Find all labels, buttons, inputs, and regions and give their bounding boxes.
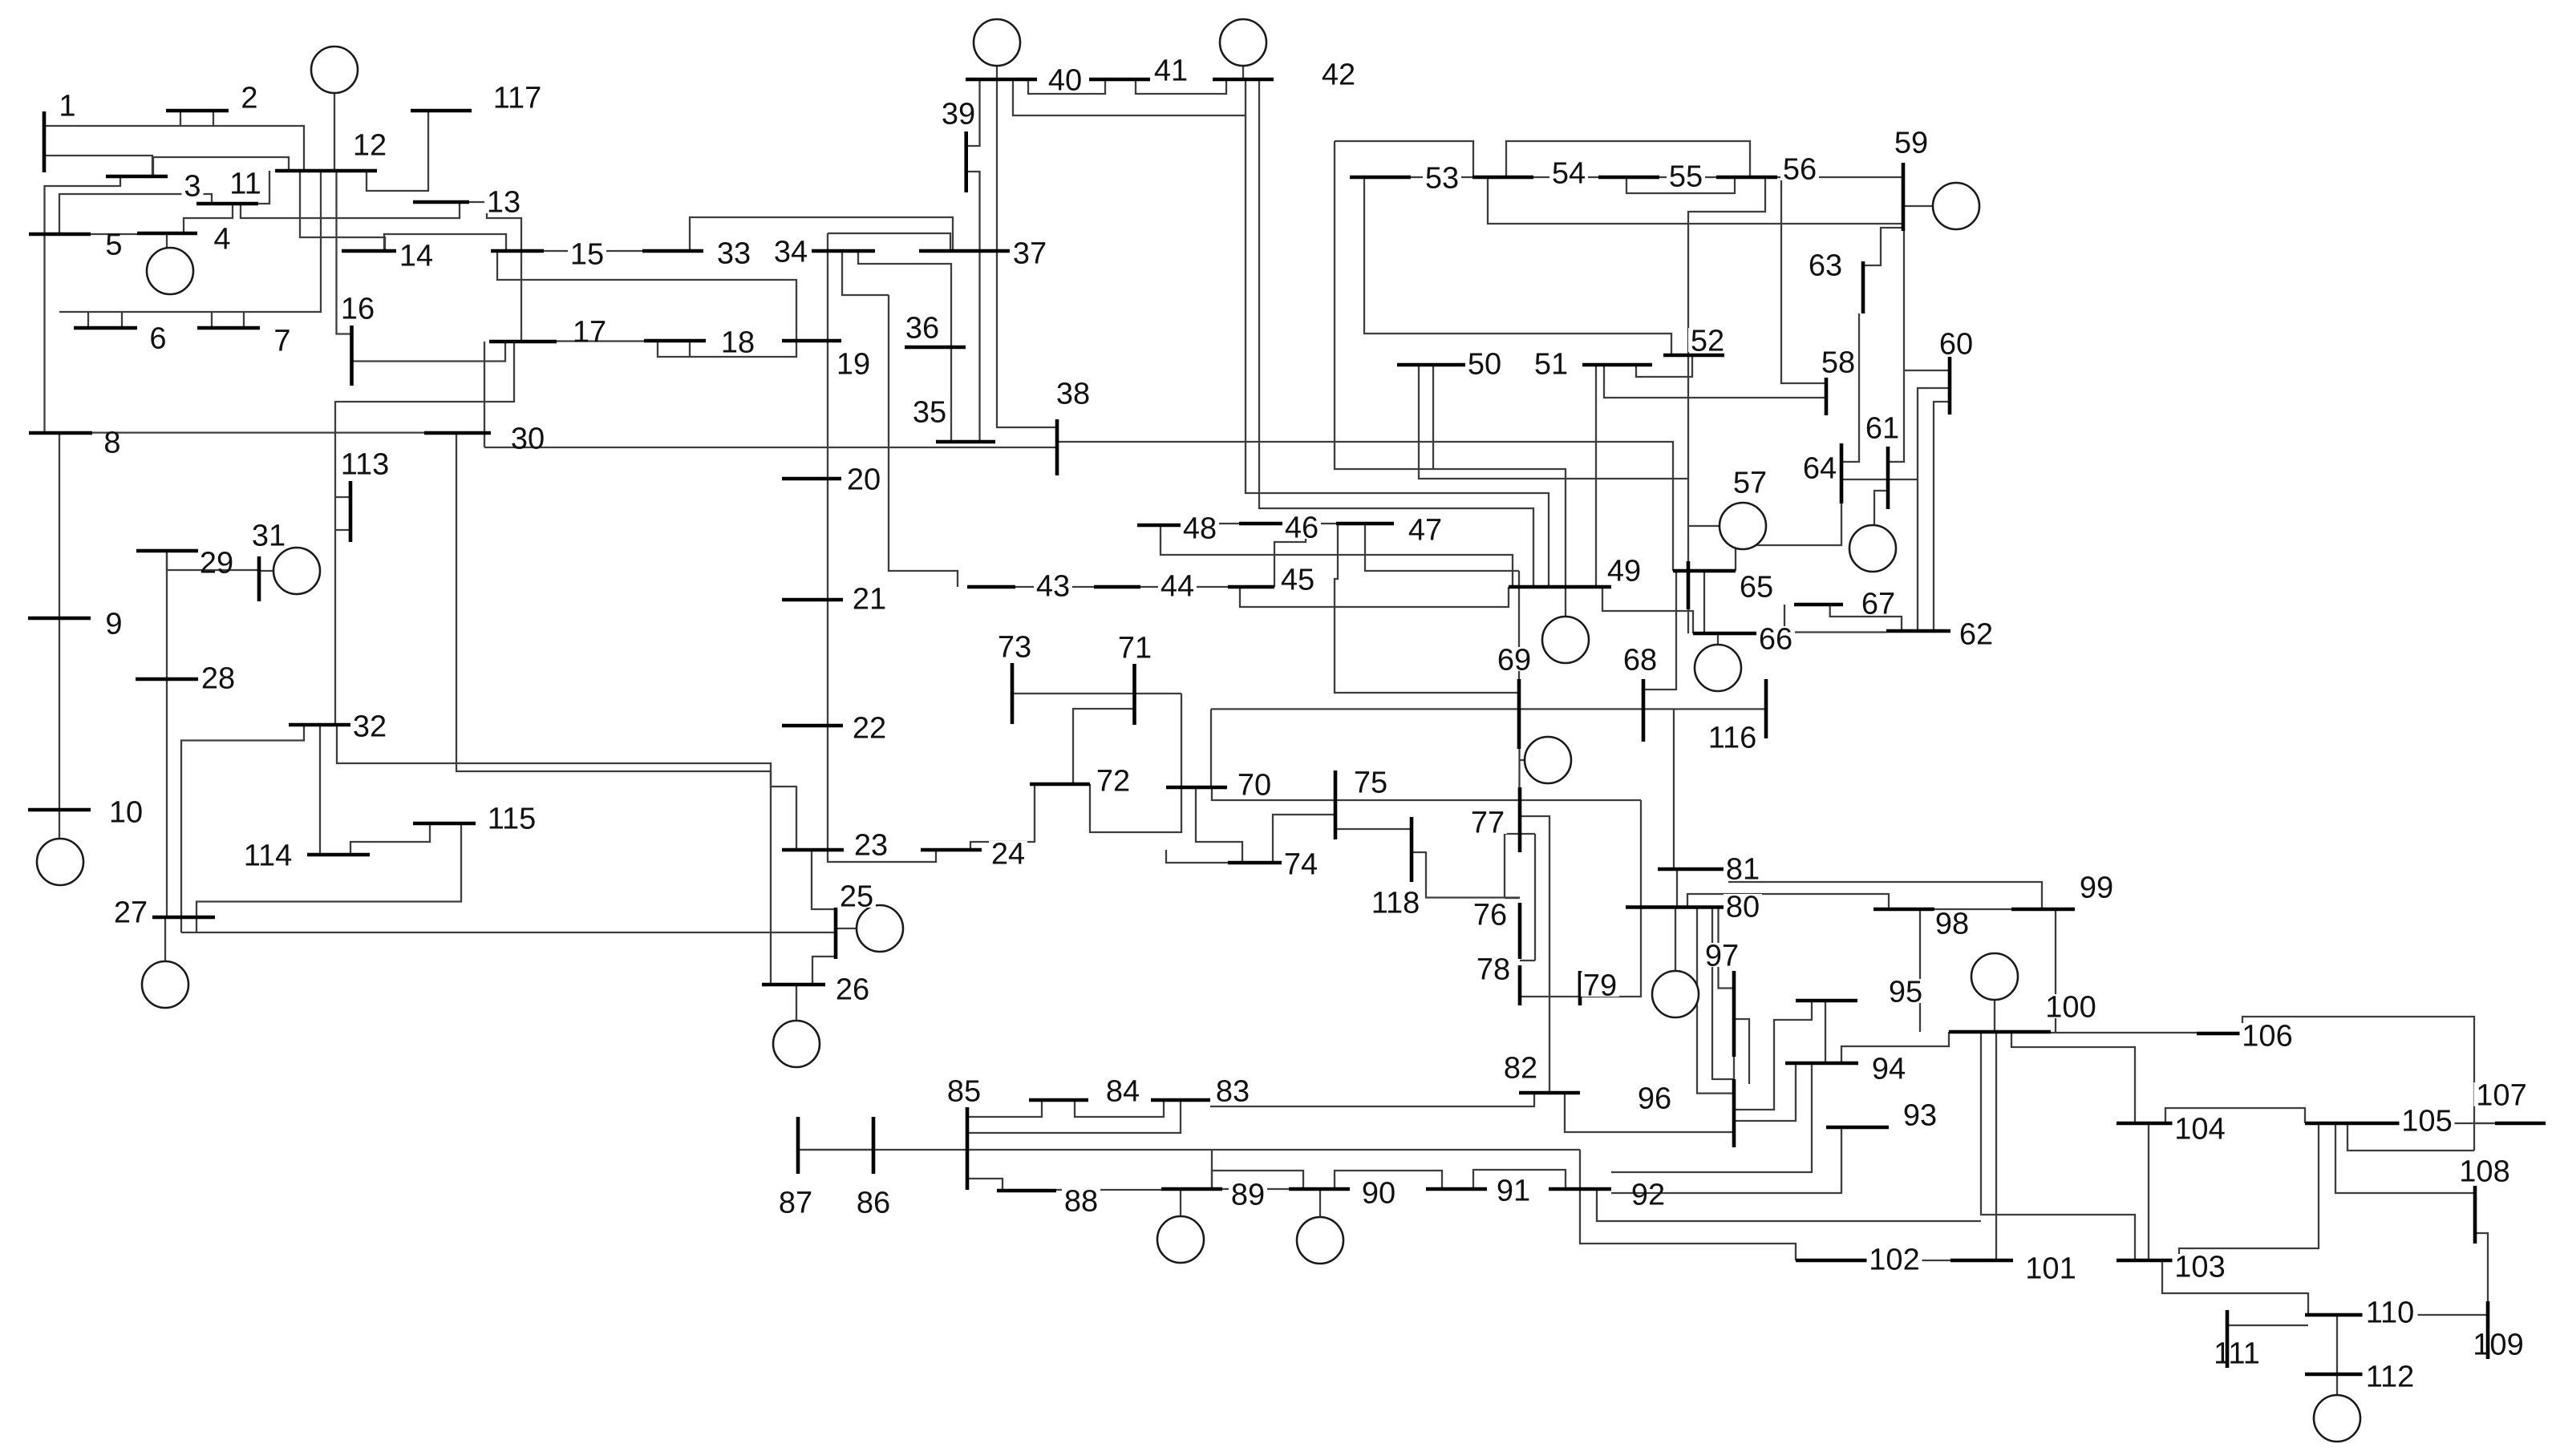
bus 1 bar (43, 111, 47, 172)
wire 77-78 (1534, 834, 1536, 961)
svg-text:31: 31 (252, 520, 286, 553)
bus 25 bar (834, 908, 838, 959)
svg-text:50: 50 (1468, 348, 1501, 382)
wire 3-12 (153, 157, 289, 176)
wire 40-gen (996, 66, 998, 79)
bus 103 bar (2117, 1259, 2179, 1263)
svg-text:116: 116 (1708, 722, 1757, 755)
wire 24-72 (970, 784, 1035, 850)
wire gen4 stub (166, 233, 168, 248)
label bus 84 (1104, 1078, 1142, 1102)
generator at bus 42 (1220, 19, 1266, 66)
label bus 106 (2240, 1023, 2295, 1047)
label bus 42 (1319, 62, 1358, 86)
svg-text:91: 91 (1497, 1175, 1530, 1208)
bus 61 bar (1886, 447, 1890, 509)
svg-text:59: 59 (1894, 127, 1928, 160)
label bus 22 (850, 715, 889, 739)
label bus 52 (1688, 328, 1727, 352)
label bus 108 (2457, 1159, 2513, 1183)
svg-text:41: 41 (1154, 55, 1188, 88)
wire 59-61 (1888, 231, 1904, 462)
wire 37-40-38 (997, 79, 1057, 427)
wire 18 stub (689, 341, 691, 357)
wire 30-17 (484, 342, 485, 447)
bus 107 bar (2495, 1122, 2546, 1126)
wire 7778s1 (1520, 833, 1535, 835)
wire 6 stub a (87, 312, 89, 328)
wire 64-65 (1736, 504, 1841, 571)
bus 8 bar (29, 431, 92, 435)
bus 38 bar (1055, 419, 1059, 475)
wire 75-118 (1335, 828, 1412, 830)
wire 59-gen (1903, 205, 1933, 207)
label bus 37 (1011, 241, 1049, 265)
svg-text:83: 83 (1216, 1075, 1250, 1109)
svg-text:45: 45 (1281, 564, 1314, 597)
svg-text:93: 93 (1903, 1099, 1937, 1133)
wire 12-117 (367, 111, 428, 191)
wire 26-30 (456, 433, 771, 985)
label bus 47 (1406, 517, 1444, 541)
wire 88-89 (1056, 1189, 1161, 1191)
wire 76-77 (1504, 834, 1505, 898)
wire 80-96b (1712, 908, 1734, 1080)
bus 67 bar (1794, 603, 1843, 607)
wire 56-59a (1777, 176, 1903, 178)
svg-text:10: 10 (109, 796, 143, 830)
bus 110 bar (2305, 1313, 2369, 1317)
svg-text:61: 61 (1865, 412, 1899, 446)
bus 82 bar (1519, 1091, 1580, 1095)
label bus 114 (241, 843, 296, 867)
bus 94 bar (1785, 1062, 1858, 1066)
label bus 81 (1724, 856, 1762, 880)
svg-text:84: 84 (1106, 1075, 1140, 1109)
wire 25-gen (836, 928, 857, 929)
bus 45 bar (1228, 585, 1274, 589)
bus 72 bar (1030, 783, 1090, 787)
wire 6 stub b (121, 312, 123, 328)
bus 27 bar (152, 916, 215, 920)
wire 55-56b (1626, 177, 1735, 193)
label bus 82 (1501, 1055, 1540, 1079)
wire 53-54 (1411, 176, 1472, 178)
generator at bus 57 (1720, 503, 1766, 549)
label bus 41 (1152, 58, 1190, 82)
wire 89-gen (1180, 1189, 1181, 1216)
bus 36 bar (905, 346, 966, 350)
wire 48-49 (1161, 525, 1513, 587)
wire 77-82 (1520, 816, 1549, 1093)
bus 98 bar (1873, 908, 1934, 912)
svg-text:118: 118 (1371, 887, 1420, 920)
label bus 89 (1229, 1182, 1267, 1206)
wire 105-108 (2335, 1123, 2475, 1193)
bus 83 bar (1151, 1098, 1210, 1102)
wire 16-17 (351, 342, 505, 362)
label bus 87 (776, 1190, 815, 1214)
wire 82-83 (1210, 1093, 1534, 1106)
label bus 63 (1806, 253, 1845, 277)
svg-text:13: 13 (487, 186, 521, 220)
label bus 7 (272, 328, 294, 352)
wire 41-42 (1136, 79, 1226, 94)
bus 90 bar (1289, 1187, 1350, 1191)
bus 111 bar (2226, 1310, 2230, 1368)
svg-text:79: 79 (1583, 969, 1617, 1003)
svg-text:35: 35 (913, 396, 946, 430)
bus 102 bar (1796, 1259, 1870, 1263)
svg-text:1: 1 (59, 90, 75, 123)
wire 66-gen (1717, 633, 1719, 645)
bus 13 bar (413, 200, 469, 204)
svg-text:32: 32 (353, 710, 387, 744)
svg-text:117: 117 (493, 82, 542, 115)
wire 60-62 (1934, 402, 1950, 631)
bus 42 bar (1213, 78, 1274, 82)
bus 62 bar (1886, 629, 1950, 633)
svg-text:51: 51 (1534, 348, 1568, 382)
generator at bus 69 (1525, 737, 1571, 783)
bus 99 bar (2011, 908, 2075, 912)
wire 34-36-35 (858, 251, 951, 442)
label bus 50 (1465, 351, 1504, 375)
svg-text:89: 89 (1231, 1179, 1265, 1212)
label bus 91 (1494, 1178, 1533, 1202)
bus 9 bar (28, 617, 91, 621)
wire 43-44 (1015, 586, 1094, 588)
wire 34-37 (828, 233, 950, 251)
bus 87 bar (796, 1117, 800, 1174)
wire 11-12 (258, 171, 269, 204)
label bus 46 (1282, 515, 1321, 539)
wire 5-11 (59, 194, 212, 234)
svg-text:71: 71 (1118, 632, 1152, 665)
svg-text:72: 72 (1096, 765, 1130, 799)
label bus 59 (1892, 130, 1930, 154)
generator at bus 40 (974, 19, 1020, 66)
bus 85 bar (966, 1107, 970, 1190)
label bus 43 (1034, 573, 1072, 597)
label bus 3 (182, 173, 204, 197)
label bus 95 (1886, 979, 1925, 1003)
label bus 115 (484, 806, 540, 830)
svg-text:49: 49 (1607, 555, 1641, 588)
wire 44-45 (1140, 586, 1228, 588)
wire 23-32 (337, 725, 796, 850)
label bus 57 (1731, 470, 1769, 494)
svg-text:70: 70 (1238, 769, 1271, 803)
bus 44 bar (1094, 585, 1140, 589)
bus 2 bar (166, 109, 229, 113)
bus 37 bar (919, 249, 1010, 253)
bus 70 bar (1166, 786, 1227, 790)
wire 2 stub a (180, 111, 181, 126)
svg-text:111: 111 (2214, 1337, 2260, 1371)
wire 83-85 (967, 1100, 1181, 1133)
label bus 13 (484, 189, 523, 213)
wire 27-28-29 (166, 551, 168, 917)
bus 30 bar (424, 431, 491, 435)
label bus 112 (2363, 1364, 2418, 1388)
bus 35 bar (936, 440, 995, 444)
svg-text:54: 54 (1552, 157, 1586, 191)
label bus 105 (2400, 1108, 2455, 1132)
label bus 103 (2173, 1254, 2228, 1278)
svg-text:24: 24 (991, 838, 1025, 872)
wire 49-66 (1602, 587, 1693, 633)
wire 50-57 (1419, 365, 1688, 479)
wire 113 stub b (335, 529, 350, 531)
wire 42-49a (1246, 115, 1549, 587)
svg-text:15: 15 (570, 238, 604, 272)
wire 42-49b (1259, 79, 1533, 587)
bus 7 bar (197, 326, 260, 330)
bus 91 bar (1426, 1187, 1487, 1191)
bus 118 bar (1410, 817, 1414, 882)
label bus 70 (1235, 772, 1274, 796)
wire 46-47 (1299, 523, 1336, 524)
generator at bus 59 (1933, 183, 1979, 229)
wire 103-104 (2148, 1123, 2149, 1260)
svg-text:80: 80 (1726, 891, 1760, 924)
wire 7677s2 (1505, 897, 1520, 899)
wire 27-32 (181, 725, 304, 932)
bus 74 bar (1228, 861, 1286, 865)
svg-text:28: 28 (201, 662, 235, 696)
label bus 100 (2044, 994, 2099, 1018)
bus 11 bar (196, 202, 258, 206)
svg-text:94: 94 (1872, 1053, 1906, 1086)
wire 79-80 (1520, 908, 1641, 997)
bus 54 bar (1472, 176, 1533, 180)
wire 69-70-68-116 (1211, 708, 1766, 710)
label bus 49 (1605, 558, 1643, 582)
wire 63-64 (1841, 313, 1859, 462)
wire 66-67 (1784, 605, 1785, 633)
svg-text:37: 37 (1013, 237, 1047, 271)
wire 54-59 (1488, 177, 1903, 224)
svg-text:76: 76 (1473, 899, 1507, 932)
wire 47-69 (1335, 524, 1519, 693)
svg-text:73: 73 (998, 631, 1031, 665)
svg-text:78: 78 (1477, 953, 1510, 987)
label bus 27 (111, 900, 150, 924)
wire 34-43b (842, 251, 889, 295)
wire 23-24 (828, 850, 936, 862)
svg-text:99: 99 (2080, 872, 2113, 905)
wire 89-92c (1579, 1150, 1581, 1189)
generator at bus 27 (142, 961, 188, 1008)
wire 7 stub b (243, 312, 245, 328)
bus 56 bar (1716, 176, 1777, 180)
bus 71 bar (1132, 664, 1136, 725)
label bus 45 (1278, 567, 1317, 591)
wire 94-100 (1841, 1032, 1949, 1063)
wire 3-5-8 (45, 177, 121, 433)
bus 109 bar (2486, 1301, 2490, 1359)
bus 63 bar (1861, 261, 1865, 313)
generator at bus 49 (1542, 617, 1589, 663)
label bus 38 (1054, 381, 1092, 405)
wire 81-80 (1676, 869, 1678, 908)
label bus 11 (226, 171, 265, 195)
wire 114-115 (350, 824, 430, 855)
label bus 31 (249, 523, 288, 547)
wire 80-98 (1687, 894, 1889, 909)
bus 10 bar (28, 808, 91, 812)
wire 37-39 (966, 172, 980, 442)
wire 61-62 (1917, 479, 1918, 631)
label bus 51 (1532, 351, 1570, 375)
label bus 104 (2173, 1116, 2228, 1140)
wire 90-91 (1335, 1171, 1442, 1189)
wire 80-96 (1697, 908, 1734, 1094)
label bus 93 (1901, 1102, 1939, 1126)
bus 41 bar (1089, 78, 1150, 82)
wire 40-42 (1013, 79, 1246, 115)
svg-text:114: 114 (244, 839, 293, 873)
label bus 14 (397, 243, 435, 267)
svg-text:75: 75 (1354, 766, 1387, 800)
bus 39 bar (964, 131, 968, 192)
wire 100-gen (1994, 1000, 1995, 1032)
wire 49-gen (1565, 587, 1566, 617)
bus 104 bar (2117, 1122, 2181, 1126)
label bus 39 (939, 101, 978, 125)
label bus 116 (1705, 725, 1760, 749)
svg-text:5: 5 (105, 229, 122, 262)
wire 83-84 (1075, 1100, 1164, 1117)
svg-text:42: 42 (1322, 59, 1355, 92)
wire 71-73 (1012, 693, 1181, 694)
generator at bus 112 (2314, 1395, 2360, 1442)
label bus 62 (1957, 621, 1995, 645)
svg-text:69: 69 (1497, 644, 1531, 677)
bus 78 bar (1518, 965, 1522, 1005)
generator at bus 61 (1849, 525, 1896, 572)
svg-text:39: 39 (942, 98, 975, 131)
wire 112-gen (2336, 1374, 2338, 1395)
wire 76-118 (1412, 852, 1520, 898)
wire 113 stub a (335, 496, 350, 498)
bus 46 bar (1239, 522, 1299, 526)
bus 80 bar (1626, 905, 1728, 909)
svg-text:65: 65 (1740, 571, 1773, 605)
svg-text:77: 77 (1471, 807, 1505, 840)
svg-text:104: 104 (2174, 1113, 2225, 1147)
svg-text:3: 3 (184, 170, 201, 204)
svg-text:97: 97 (1705, 940, 1739, 973)
svg-text:38: 38 (1056, 378, 1090, 411)
bus 77 bar (1518, 787, 1522, 852)
wire 65-66 (1703, 571, 1705, 633)
svg-text:66: 66 (1759, 623, 1792, 657)
wire 25-27 (181, 932, 836, 933)
bus 100 bar (1949, 1030, 2051, 1034)
label bus 71 (1116, 635, 1154, 659)
label bus 36 (903, 315, 942, 339)
label bus 107 (2474, 1082, 2530, 1106)
bus 86 bar (872, 1117, 876, 1174)
generator at bus 66 (1695, 645, 1741, 691)
label bus 69 (1495, 647, 1533, 671)
bus 4 bar (137, 232, 197, 236)
wire 70-71 (1210, 709, 1212, 787)
wire 105-107 (2407, 1122, 2495, 1124)
label bus 83 (1213, 1078, 1252, 1102)
label bus 86 (854, 1190, 893, 1214)
bus 64 bar (1840, 443, 1844, 504)
wire 92-102 (1580, 1189, 1796, 1260)
svg-text:6: 6 (149, 322, 166, 356)
wire 100-106 (2051, 1032, 2197, 1033)
wire 105-106 (2347, 1123, 2474, 1151)
wire 94-96 (1733, 1063, 1796, 1121)
wire 7 stub a (211, 312, 213, 328)
wire 29-31 (167, 551, 259, 570)
svg-text:103: 103 (2174, 1251, 2225, 1284)
wire 15-19 (497, 251, 796, 341)
bus 105 bar (2305, 1122, 2407, 1126)
svg-text:34: 34 (774, 236, 808, 269)
bus 29 bar (136, 549, 198, 553)
label bus 15 (568, 241, 606, 265)
wire 100-103 (1981, 1032, 2135, 1260)
svg-text:106: 106 (2242, 1020, 2292, 1054)
label bus 101 (2023, 1256, 2079, 1280)
wire 61-64 (1841, 479, 1918, 480)
wire 45-49 (1240, 587, 1509, 607)
wire 45-46 (1274, 524, 1306, 587)
wire 62-67 (1830, 605, 1902, 631)
bus 88 bar (997, 1189, 1056, 1193)
bus 114 bar (307, 853, 370, 857)
label bus 61 (1863, 415, 1902, 439)
wire 30-38 (484, 447, 1057, 448)
label bus 34 (772, 239, 810, 263)
label bus 73 (995, 634, 1034, 658)
wire 62-66 (1762, 631, 1886, 633)
svg-text:90: 90 (1362, 1177, 1395, 1211)
wire 92-93 (1611, 1127, 1841, 1193)
bus 115 bar (413, 822, 476, 826)
generator at bus 80 (1652, 971, 1699, 1017)
wire 59-60 (1903, 370, 1950, 371)
svg-text:102: 102 (1869, 1244, 1919, 1277)
wire 100-104 (2011, 1032, 2135, 1123)
label bus 54 (1549, 160, 1588, 184)
wire 54-56 (1506, 141, 1750, 177)
label bus 58 (1819, 350, 1857, 374)
wire 49-50 (1432, 365, 1434, 469)
generator at bus 31 (273, 548, 320, 594)
bus 89 bar (1161, 1187, 1222, 1191)
wire 70-74 (1196, 787, 1242, 863)
label bus 98 (1933, 911, 1971, 935)
generator at bus 10 (37, 839, 83, 885)
bus 60 bar (1948, 357, 1952, 415)
svg-text:98: 98 (1935, 908, 1969, 941)
wire 13-15b (487, 202, 521, 342)
label bus 67 (1859, 591, 1898, 615)
wire 7677s1 (1505, 833, 1520, 835)
wire 92-94 (1611, 1063, 1812, 1172)
label bus 44 (1158, 573, 1197, 597)
wire 61-gen (1874, 491, 1888, 525)
wire 74-75 (1273, 815, 1335, 863)
